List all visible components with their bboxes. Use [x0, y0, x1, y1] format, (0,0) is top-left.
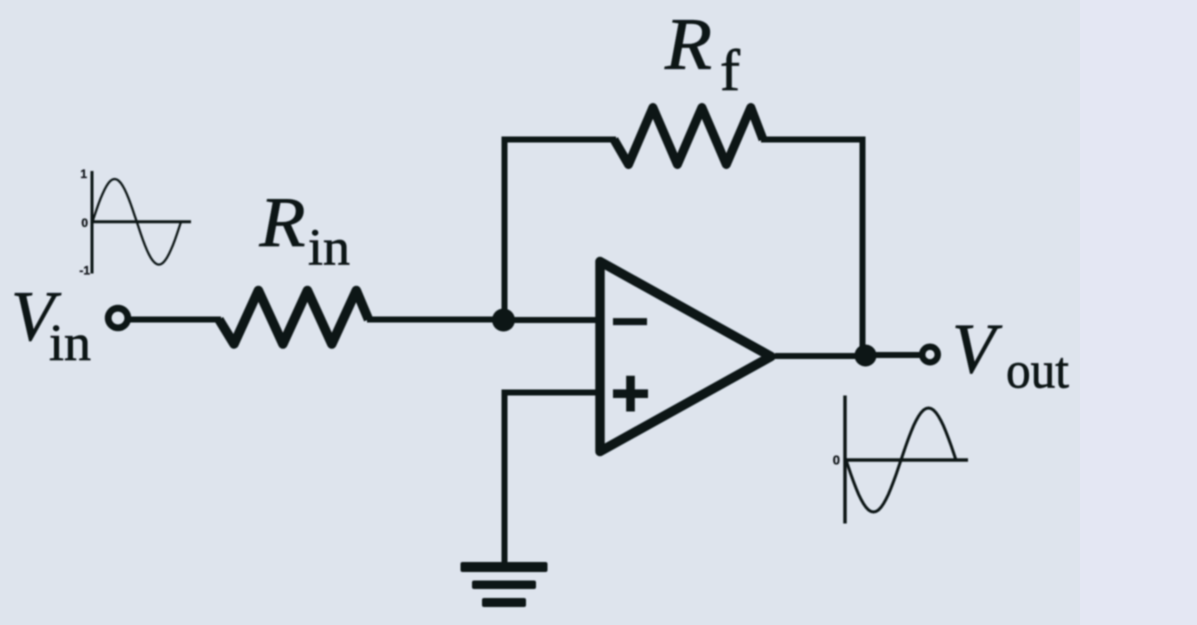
- output waveform graph axes: [845, 396, 968, 524]
- svg-text:1: 1: [80, 167, 87, 181]
- svg-text:0: 0: [81, 216, 88, 230]
- svg-text:-1: -1: [79, 264, 90, 278]
- resistor Rf: [614, 108, 763, 165]
- svg-text:f: f: [720, 38, 741, 103]
- svg-text:in: in: [49, 315, 91, 372]
- wire: input terminal to Rin: [129, 317, 222, 323]
- output terminal circle: [922, 347, 938, 363]
- op-amp non-inverting input symbol (plus): [613, 376, 648, 412]
- node B: output junction: [855, 345, 877, 367]
- wire: non-inverting input to ground: [505, 393, 599, 564]
- wire: Rf to output node, right vertical: [761, 140, 863, 353]
- wire: node A to op-amp inverting input: [504, 317, 598, 323]
- label Rin: [258, 184, 350, 277]
- output waveform sine curve (inverted, amplified): [846, 408, 956, 512]
- input waveform graph axes: [92, 171, 191, 274]
- wire: node B to output terminal: [866, 352, 921, 358]
- op-amp inverting input symbol (minus): [613, 318, 647, 325]
- svg-text:V: V: [952, 311, 1003, 389]
- wire: op-amp output to node B: [775, 353, 866, 359]
- svg-text:out: out: [1006, 343, 1070, 400]
- node A: inverting input junction: [492, 309, 515, 332]
- op-amp U1 triangle: [600, 262, 771, 452]
- label Rf: [664, 4, 741, 103]
- wire: feedback left vertical, node A up to Rf: [505, 140, 617, 319]
- svg-text:0: 0: [833, 453, 840, 468]
- svg-text:in: in: [308, 220, 350, 277]
- resistor Rin: [219, 291, 369, 345]
- svg-text:R: R: [258, 184, 305, 262]
- svg-text:R: R: [664, 4, 712, 86]
- wire: Rin to inverting input node: [367, 317, 503, 323]
- input waveform sine curve: [93, 179, 182, 265]
- label Vout: [952, 311, 1070, 400]
- input terminal circle: [108, 308, 128, 328]
- label Vin: [11, 278, 91, 372]
- ground symbol: [461, 562, 548, 607]
